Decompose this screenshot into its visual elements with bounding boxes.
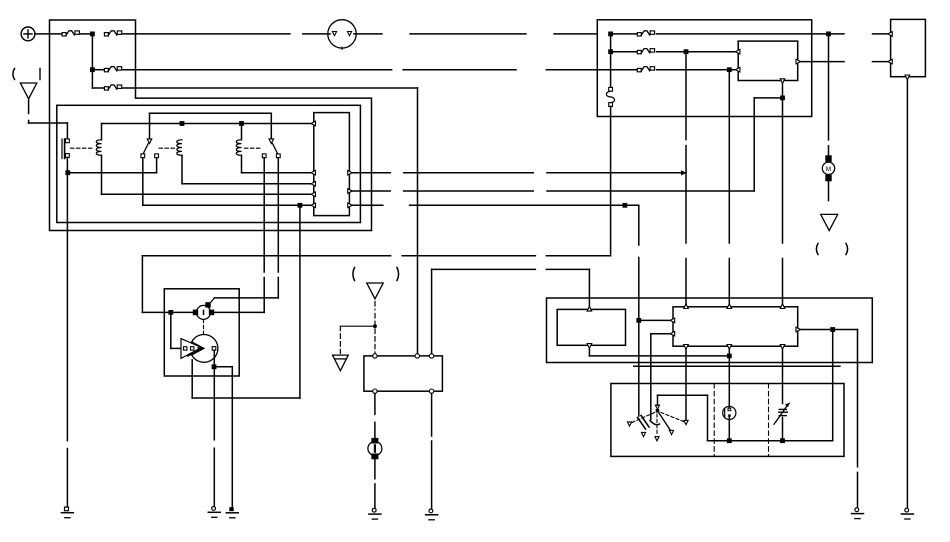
wire coil3 bottom to connector [242, 172, 314, 174]
wire branch to ground triangle 2 [340, 325, 375, 327]
wire y=312.4 into coil [142, 311, 192, 313]
connector pin left 4 [311, 192, 316, 197]
switch2 moving arm [273, 144, 278, 154]
small box top pin [587, 307, 592, 312]
motor V pump [822, 162, 834, 174]
wire relay bottom pin down [782, 83, 784, 98]
wire coil1 bottom to connector [102, 193, 314, 195]
paren left of antenna [13, 69, 15, 80]
wire switch2 right pin drop [277, 158, 279, 272]
ignition switch pin b [641, 432, 645, 436]
junction x=828.5 y=34 [826, 32, 831, 37]
wire x=638.8 into switch [638, 320, 640, 416]
relay unit pin right [796, 327, 801, 332]
wire y=398 under distributor [192, 397, 300, 399]
wire stub to small box y=34 [873, 33, 889, 35]
washer pin top 1 [373, 354, 377, 358]
wire coil2 bottom riser [181, 155, 183, 184]
ground connection left [65, 507, 69, 511]
wire riser fuse rows [91, 34, 93, 88]
ignition switch contact blade 1 [638, 418, 646, 430]
relay pin bottom [780, 79, 785, 84]
ignition switch pin a [627, 422, 631, 426]
ignition switch pivot [655, 405, 659, 409]
wire stub to small box y=62 [873, 61, 889, 63]
junction ground wire left [65, 170, 70, 175]
small box bottom pin [587, 344, 592, 349]
motor washer pump [368, 442, 382, 456]
wire drop x=431.6 [431, 269, 433, 353]
wire y=256 long run [142, 255, 390, 257]
wire relay right pin out [800, 61, 844, 63]
junction x=686 y=51.7 [684, 49, 689, 54]
fuse S1 [62, 33, 66, 36]
wire riser x=610.6 [610, 34, 612, 88]
small box pin bottom [905, 75, 910, 80]
ignition switch dashed arm down [656, 414, 658, 434]
relay coil 1 [96, 140, 101, 156]
paren left mid ground [353, 268, 355, 281]
distributor output pin [212, 347, 216, 351]
horn pin left [332, 32, 336, 36]
ground connection far right [905, 508, 909, 512]
wire ground left vertical [66, 173, 68, 441]
washer pin top 2 [415, 354, 419, 358]
wire corner drop x=142.4 [141, 256, 143, 313]
wire x=686 down [685, 52, 687, 140]
wire fuse row2 output cont2 [546, 69, 597, 71]
wire pivot up and over [657, 395, 659, 405]
junction coil3 top [239, 121, 244, 126]
wire fuse S7 out [657, 69, 739, 71]
wire battery to fuse box [35, 33, 62, 35]
ignition switch dashed arm right [661, 413, 684, 422]
wire junction to pin left1 [639, 319, 670, 321]
relay contact K1 top pin [66, 139, 70, 143]
wire coil3 bottom riser [241, 155, 243, 172]
wire link down to corner [610, 106, 612, 255]
wire K1 bottom to junction [66, 157, 68, 172]
dashed link K1 to coil1 [71, 147, 95, 149]
wire drop x=828.5 to motor [828, 34, 830, 140]
distributor rotor circle [192, 335, 218, 363]
relay unit pin top 3 [780, 304, 785, 309]
junction x=782.5 y=97.9 [780, 96, 785, 101]
fuse S7 [637, 68, 641, 71]
connector pin left 1 [311, 121, 316, 126]
junction arrow at x=686 y=173 [681, 170, 687, 175]
wire switch2 left pin drop [263, 158, 265, 272]
junction fuse row 1 [90, 32, 95, 37]
wire x=638.8 down [638, 205, 640, 245]
wire y=172.7 K1 to switch1 [68, 172, 157, 174]
wire circle component through [728, 406, 730, 408]
ground connection mid 2 [229, 507, 233, 511]
load circle component [723, 406, 736, 419]
relay contact K1 bottom pin [66, 154, 70, 158]
connector pin right 1 [348, 170, 353, 175]
rotor arrow [188, 351, 198, 356]
relay unit pin top 1 [684, 304, 689, 309]
wire coil3 top riser [241, 124, 243, 140]
wire fuse S6 out [657, 51, 739, 53]
battery B+ terminal [21, 27, 35, 41]
paren right near ground right [846, 244, 848, 255]
fuse S2 [104, 33, 108, 36]
wire antenna to relay contact [29, 122, 68, 124]
wire pin right out [800, 329, 858, 331]
wire fuse S1 to junction [81, 33, 93, 35]
wire distributor pin ground [213, 367, 215, 440]
fuse S5 [637, 33, 641, 36]
ignition switch contact blade 2 [650, 421, 660, 425]
dashed divider 2 [768, 384, 770, 457]
pickup pin 1 [184, 347, 187, 350]
wire relay unit bottom pin3 down [782, 349, 784, 404]
wire washer motor lead [374, 393, 376, 414]
wire distributor pin down [213, 350, 215, 367]
junction dashed ground [373, 324, 377, 328]
dashed link coil3 to switch2 [245, 147, 262, 149]
wire small box down to ground [906, 79, 908, 508]
washer pin bottom 1 [373, 389, 377, 393]
wire y=34 mid segment [356, 33, 382, 35]
dashed link switch1 to coil2 [159, 147, 176, 149]
wire coil term1 to switch2 [215, 297, 279, 299]
svg-text:M: M [826, 166, 831, 173]
wire x=782.5 down [782, 98, 784, 243]
wire fuse row3 long to right [123, 87, 418, 89]
wire coil feed line y=123.5 [102, 123, 314, 125]
wire switch1 pivot riser [149, 113, 151, 139]
relay coil 2 [177, 140, 182, 156]
ignition switch box outline [611, 384, 844, 457]
rheostat symbol [779, 408, 786, 410]
relay pin left 1 [735, 49, 740, 54]
junction row2 x=610.6 [608, 49, 613, 54]
wire y=172.7 right run [352, 172, 390, 174]
wire y=34 after fusebox [812, 33, 844, 35]
relay pin left 2 [735, 67, 740, 72]
wire row3 in box [597, 69, 637, 71]
wire coil1 bottom riser [101, 155, 103, 194]
relay unit pin top 2 [727, 304, 732, 309]
wire pin left2 jog [651, 333, 670, 335]
switch1 right pin [155, 154, 159, 158]
fusible link squiggle [606, 91, 614, 102]
pickup pin 2 [191, 347, 194, 350]
bar right of antenna [39, 69, 41, 80]
wire washer motor to ground [374, 459, 376, 478]
junction x=729.3 y=440.7 [727, 438, 732, 443]
ground connection right [855, 508, 859, 512]
wire jog left [754, 97, 782, 99]
connector pin left 2 [311, 170, 316, 175]
relay unit box right [673, 307, 798, 346]
junction x=832.7 y=329.5 [830, 327, 835, 332]
small box pin 2 [888, 59, 893, 64]
wire motor to ground stub [828, 181, 830, 200]
washer pin bottom 2 [429, 389, 433, 393]
ground connection washer 2 [429, 509, 433, 513]
wire x=832.7 down [832, 330, 834, 441]
ground triangle right [821, 214, 838, 230]
ignition switch pin e [684, 420, 688, 424]
wire out of horn [354, 33, 356, 35]
relay pin right [796, 59, 801, 64]
relay unit pin bottom 2 [727, 345, 732, 350]
wire fuse row1 output cont [303, 33, 328, 35]
connector pin left 5 [311, 203, 316, 208]
ignition switch pin c [655, 437, 659, 441]
right control box outline [547, 298, 873, 363]
wire drop to pickup [170, 312, 172, 348]
connector pin right 3 [348, 203, 353, 208]
connector pin left 3 [311, 182, 316, 187]
wire row2 to fuse [611, 51, 638, 53]
switch1 pivot pin [147, 139, 152, 144]
relay box inner outline [57, 105, 361, 222]
junction marker x=625 y=205.3 [623, 203, 628, 208]
dashed link coil to distributor [203, 320, 205, 335]
ignition coil T1 [197, 305, 211, 319]
relay unit pin left 1 [670, 318, 675, 323]
paren right mid ground [397, 268, 399, 281]
wire drop x=417.5 to washer box pin [417, 88, 419, 354]
ground connection mid 1 [212, 507, 216, 511]
wire fuse row1 output [123, 33, 290, 35]
horn pin right [347, 32, 351, 36]
junction row1 x=610.6 [608, 32, 613, 37]
wire y=440.7 bus [708, 440, 833, 442]
wire switch1 right pin drop [156, 158, 158, 173]
wire relay unit bottom pin2 down [728, 349, 730, 406]
junction x=214.3 y=366.8 [212, 364, 217, 369]
relay unit pin left 2 [670, 331, 675, 336]
washer pin top 3 [429, 354, 433, 358]
dashed divider 1 [713, 384, 715, 457]
ignition switch pin d [669, 430, 673, 434]
small box in control box [557, 309, 625, 345]
pickup wedge [181, 339, 202, 359]
switch2 left pin [262, 154, 266, 158]
wire junction to fuse S3 [92, 69, 104, 71]
wire y=191 right run [352, 190, 390, 192]
junction x=638.8 y=320.4 [636, 318, 641, 323]
junction x=170.8 y=312.4 [168, 310, 173, 315]
wire row1 to fuse [611, 33, 638, 35]
wire pivot bus y=113.3 [150, 112, 272, 114]
wire fuse row2 output [123, 69, 392, 71]
antenna lead [28, 99, 30, 114]
junction x=729 y=69.7 [727, 67, 732, 72]
ground connection washer [372, 508, 376, 512]
relay coil 3 [236, 140, 241, 156]
junction coil2 top [180, 121, 185, 126]
wire y=205.3 to connector [143, 204, 314, 206]
small box pin 1 [888, 32, 893, 37]
wire switch1 left pin drop [142, 158, 144, 206]
junction x=729.3 y=355.9 [727, 354, 732, 359]
bus bar under control box [634, 365, 840, 367]
ignition switch solid arm [659, 413, 671, 431]
junction fuse row 2 [90, 67, 95, 72]
relay unit pin bottom 1 [684, 345, 689, 350]
fuse box / relay plate outline (L-shape) [50, 20, 372, 231]
fuse S4 [104, 87, 108, 90]
wire x=729 down [728, 70, 730, 243]
wire drop x=589.4 to box [588, 269, 590, 307]
wire corner to fuse S4 [92, 87, 104, 89]
wire coil1 top riser [101, 124, 103, 140]
fuse box right outline [597, 20, 811, 117]
wire fuse S5 out [657, 33, 812, 35]
switch2 pivot pin [269, 139, 274, 144]
wire rheostat down [782, 418, 784, 441]
ground triangle mid 2 [333, 355, 349, 371]
junction x=300 on y=205.3 [298, 203, 303, 208]
relay box in fuse box [738, 41, 798, 80]
relay contact K1 bars [61, 139, 63, 159]
wire into horn [328, 33, 330, 35]
fuse S6 [637, 50, 641, 53]
dashed ground lead [374, 302, 376, 310]
wire small box bottom jog [588, 348, 590, 356]
relay unit pin bottom 3 [780, 345, 785, 350]
wire coil term15 to switch2 [214, 311, 264, 313]
connector pin right 2 [348, 189, 353, 194]
switch1 moving arm [143, 144, 148, 154]
wire drop x=754.2 [753, 98, 755, 191]
wire coil2 bottom to connector [182, 183, 314, 185]
wire coil terminal 1 diag [211, 298, 215, 303]
wire distributor body down [191, 360, 193, 398]
horn bottom tick [341, 47, 343, 49]
wire jog to x=232.3 [214, 366, 232, 368]
wire x=857.5 down [857, 330, 859, 467]
horn connector circle [328, 20, 356, 48]
wire y=205.3 right run [352, 204, 383, 206]
switch2 right pin [276, 154, 280, 158]
junction x=782.5 y=440.7 [780, 438, 785, 443]
distributor box outline [164, 289, 239, 376]
wire drop x=300 [299, 205, 301, 398]
wire relay unit bottom pin1 down [685, 349, 687, 421]
wire switch2 pivot riser [270, 113, 272, 139]
wire y=269.4 run [432, 268, 536, 270]
paren left near ground right [816, 244, 818, 255]
wire washer pin2 to ground [431, 393, 433, 436]
small box top right [891, 19, 926, 76]
washer unit box [364, 356, 443, 391]
ignition switch dashed arm left [632, 413, 655, 423]
fuse S3 [104, 68, 108, 71]
ground triangle mid [367, 283, 384, 299]
connector block in relay box [314, 113, 350, 216]
antenna W symbol [20, 83, 36, 99]
switch1 left pin [141, 154, 145, 158]
wire fuse row2 output cont [403, 69, 516, 71]
